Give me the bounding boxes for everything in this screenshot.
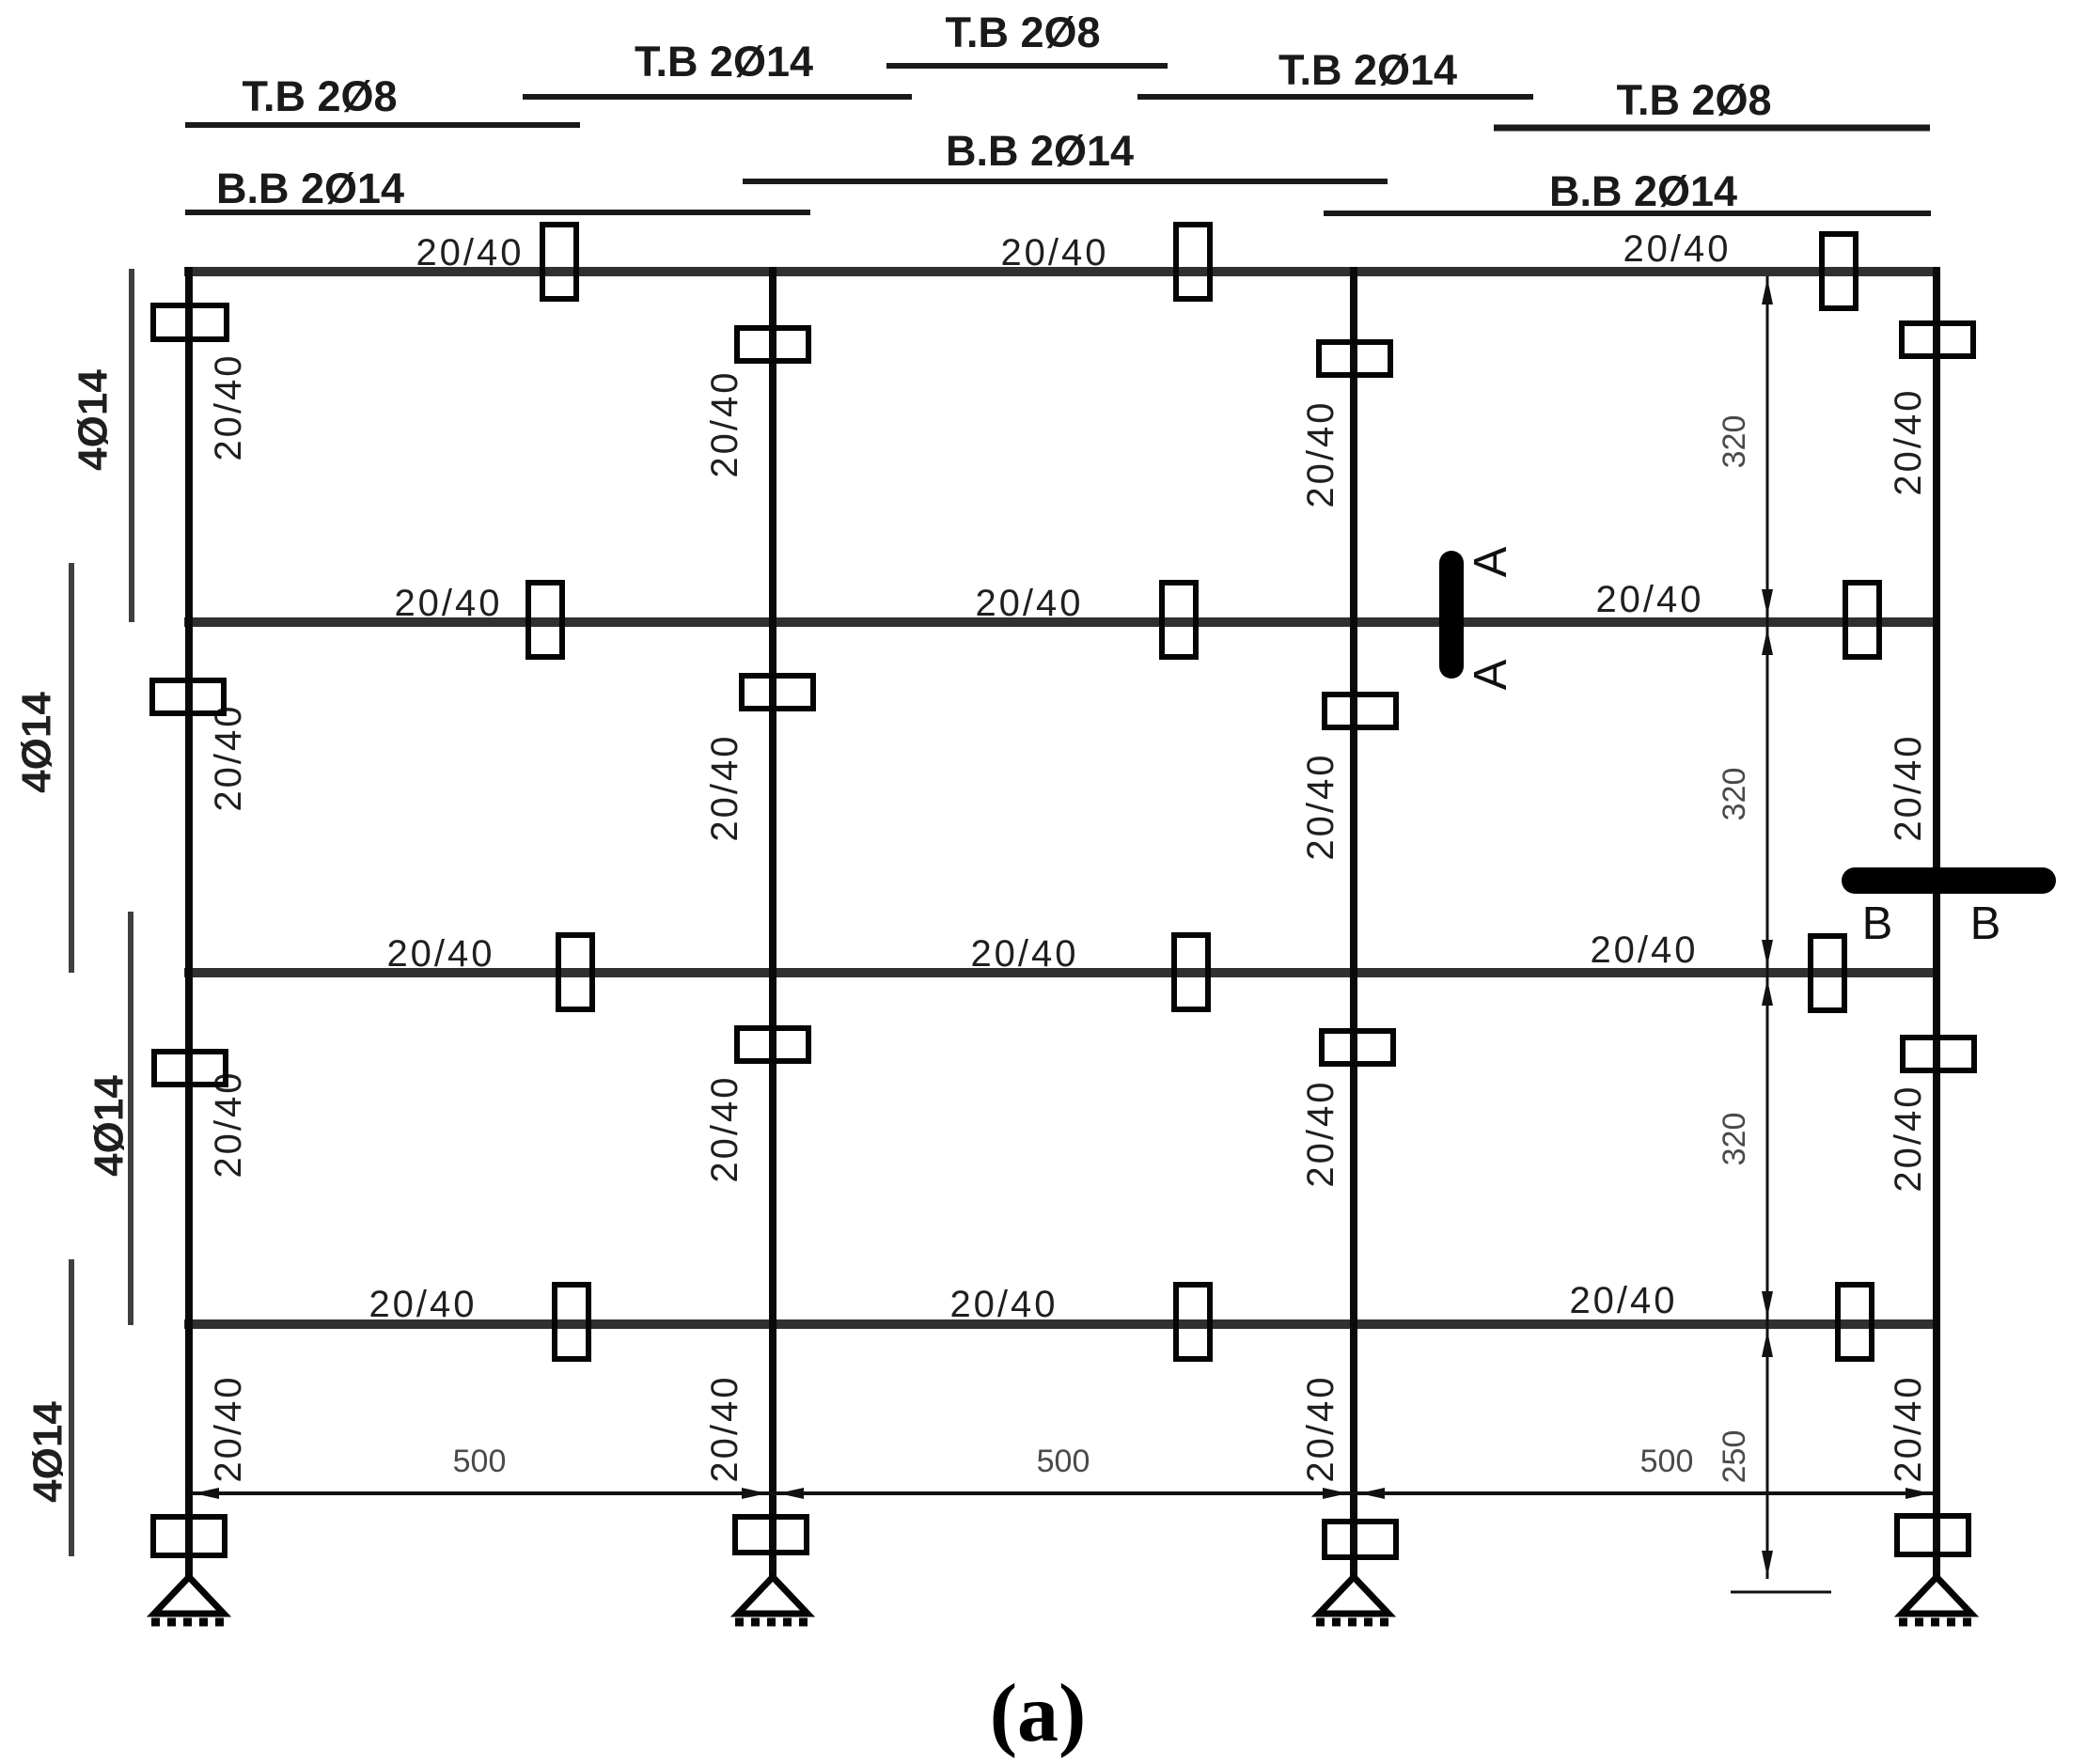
svg-text:A: A xyxy=(1466,546,1516,577)
span dimension text 500 (span 2) xyxy=(1037,1444,1090,1479)
svg-text:20/40: 20/40 xyxy=(1569,1280,1677,1321)
beam size labels 20/40 on B3 xyxy=(386,929,1698,975)
top-bar label T.B 2Ø8 span 2 xyxy=(886,8,1168,66)
svg-text:B.B 2Ø14: B.B 2Ø14 xyxy=(946,127,1134,175)
svg-text:20/40: 20/40 xyxy=(1595,579,1703,620)
svg-text:500: 500 xyxy=(1640,1444,1694,1479)
svg-text:320: 320 xyxy=(1717,415,1752,469)
svg-text:500: 500 xyxy=(453,1444,507,1479)
svg-text:20/40: 20/40 xyxy=(704,1374,745,1482)
column C3 xyxy=(1350,267,1357,1579)
svg-text:20/40: 20/40 xyxy=(970,933,1078,975)
section cut B-B bar xyxy=(1842,867,2056,894)
column size labels 20/40 rotated xyxy=(208,352,1929,1482)
stirrup marker boxes on beam B4 xyxy=(555,1285,1872,1359)
bottom-bar label B.B 2Ø14 span 1 xyxy=(185,164,810,212)
beam size labels 20/40 on B4 xyxy=(369,1280,1677,1325)
rebar label 4Ø14 storey 4 xyxy=(25,1401,71,1503)
svg-text:4Ø14: 4Ø14 xyxy=(86,1075,133,1177)
svg-text:20/40: 20/40 xyxy=(208,352,249,461)
column C4 xyxy=(1933,267,1940,1579)
svg-text:T.B 2Ø14: T.B 2Ø14 xyxy=(635,38,813,86)
svg-text:20/40: 20/40 xyxy=(704,369,745,477)
svg-text:20/40: 20/40 xyxy=(386,933,494,975)
stirrup marker boxes on column C1 xyxy=(152,305,227,1555)
span dimension text 500 (span 3) xyxy=(1640,1444,1694,1479)
svg-text:(a): (a) xyxy=(990,1668,1087,1759)
svg-text:4Ø14: 4Ø14 xyxy=(71,369,117,471)
svg-text:20/40: 20/40 xyxy=(208,1374,249,1482)
pinned support at C2 xyxy=(735,1577,810,1622)
bottom-bar label B.B 2Ø14 span 3 xyxy=(1324,167,1931,215)
beam B4 (1st floor beam 20/40) xyxy=(184,1319,1940,1329)
stirrup marker boxes on column C4 xyxy=(1897,323,1974,1554)
svg-text:B.B 2Ø14: B.B 2Ø14 xyxy=(216,164,404,212)
svg-text:20/40: 20/40 xyxy=(1590,929,1698,971)
top-bar label T.B 2Ø8 span 1 xyxy=(185,72,580,125)
section label A top xyxy=(1466,546,1516,577)
svg-text:20/40: 20/40 xyxy=(1300,1374,1341,1482)
storey dimension text 250 (storey 4) xyxy=(1717,1430,1752,1484)
column C2 xyxy=(769,267,776,1579)
svg-text:20/40: 20/40 xyxy=(949,1284,1058,1325)
top-bar label T.B 2Ø14 span 1-2 xyxy=(523,38,912,97)
stirrup marker boxes on beam B2 xyxy=(528,583,1879,657)
section cut A-A bar xyxy=(1439,551,1464,679)
stirrup marker boxes on beam B1 xyxy=(542,225,1856,308)
svg-text:B: B xyxy=(1862,898,1893,949)
section label B right xyxy=(1970,898,2001,949)
pinned support at C1 xyxy=(151,1577,227,1622)
svg-text:20/40: 20/40 xyxy=(1888,1084,1929,1192)
rebar label 4Ø14 storey 2 xyxy=(14,692,60,793)
storey dimension text 320 (storey 1) xyxy=(1717,415,1752,469)
svg-text:20/40: 20/40 xyxy=(1888,733,1929,841)
rebar callout line 4Ø14 storey 2 xyxy=(69,563,74,973)
beam size labels 20/40 on B1 xyxy=(416,228,1731,273)
pinned support at C3 xyxy=(1316,1577,1391,1622)
svg-text:20/40: 20/40 xyxy=(369,1284,477,1325)
svg-text:4Ø14: 4Ø14 xyxy=(25,1401,71,1503)
svg-text:20/40: 20/40 xyxy=(1300,752,1341,860)
svg-text:A: A xyxy=(1466,659,1516,690)
vertical dimension line at right xyxy=(1731,276,1831,1592)
svg-text:4Ø14: 4Ø14 xyxy=(14,692,60,793)
svg-text:320: 320 xyxy=(1717,1113,1752,1166)
svg-text:20/40: 20/40 xyxy=(394,583,502,624)
svg-text:20/40: 20/40 xyxy=(416,232,524,273)
section label A bottom xyxy=(1466,659,1516,690)
top-bar label T.B 2Ø14 span 2-3 xyxy=(1137,46,1533,97)
svg-text:20/40: 20/40 xyxy=(1000,232,1108,273)
dimension arrowheads right xyxy=(1762,278,1773,1577)
section label B left xyxy=(1862,898,1893,949)
svg-text:T.B 2Ø8: T.B 2Ø8 xyxy=(945,8,1100,56)
storey dimension text 320 (storey 2) xyxy=(1717,768,1752,821)
svg-text:20/40: 20/40 xyxy=(975,583,1083,624)
stirrup marker boxes on column C2 xyxy=(735,328,813,1553)
svg-text:T.B 2Ø14: T.B 2Ø14 xyxy=(1278,46,1457,94)
rebar label 4Ø14 storey 1 xyxy=(71,369,117,471)
rebar callout line 4Ø14 storey 4 xyxy=(69,1259,74,1556)
bottom-bar label B.B 2Ø14 span 2 xyxy=(743,127,1388,181)
rebar callout line 4Ø14 storey 1 xyxy=(129,269,134,622)
svg-text:T.B 2Ø8: T.B 2Ø8 xyxy=(1616,76,1771,124)
svg-text:20/40: 20/40 xyxy=(1300,399,1341,507)
top-bar label T.B 2Ø8 span 3 xyxy=(1494,76,1930,128)
svg-text:20/40: 20/40 xyxy=(208,703,249,811)
rebar callout line 4Ø14 storey 3 xyxy=(128,912,133,1325)
svg-text:320: 320 xyxy=(1717,768,1752,821)
pinned support at C4 xyxy=(1899,1577,1974,1622)
svg-text:B.B 2Ø14: B.B 2Ø14 xyxy=(1549,167,1737,215)
svg-text:20/40: 20/40 xyxy=(1888,1374,1929,1482)
horizontal dimension line at bottom xyxy=(192,1491,1933,1495)
span dimension text 500 (span 1) xyxy=(453,1444,507,1479)
dimension arrowheads bottom xyxy=(194,1488,1931,1499)
caption (a) xyxy=(990,1668,1087,1759)
beam size labels 20/40 on B2 xyxy=(394,579,1703,624)
stirrup marker boxes on beam B3 xyxy=(558,935,1844,1010)
svg-text:250: 250 xyxy=(1717,1430,1752,1484)
rebar label 4Ø14 storey 3 xyxy=(86,1075,133,1177)
storey dimension text 320 (storey 3) xyxy=(1717,1113,1752,1166)
svg-text:T.B 2Ø8: T.B 2Ø8 xyxy=(242,72,397,120)
svg-text:20/40: 20/40 xyxy=(1623,228,1731,270)
beam B3 (2nd floor beam 20/40) xyxy=(184,968,1940,977)
svg-text:20/40: 20/40 xyxy=(1300,1079,1341,1187)
svg-text:500: 500 xyxy=(1037,1444,1090,1479)
svg-text:B: B xyxy=(1970,898,2001,949)
beam B2 (3rd floor beam 20/40) xyxy=(184,617,1940,627)
stirrup marker boxes on column C3 xyxy=(1319,342,1396,1557)
svg-text:20/40: 20/40 xyxy=(1888,387,1929,495)
column C1 xyxy=(185,267,193,1579)
svg-text:20/40: 20/40 xyxy=(704,1074,745,1182)
beam B1 (roof beam 20/40) xyxy=(184,267,1940,276)
svg-text:20/40: 20/40 xyxy=(704,733,745,841)
